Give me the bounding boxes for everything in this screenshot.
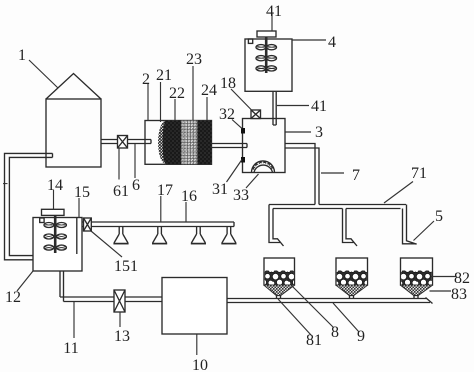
wire pipe drum to box3 — [212, 144, 248, 148]
svg-text:31: 31 — [212, 181, 228, 198]
leader 32 — [232, 120, 242, 129]
leader 83 — [430, 290, 452, 292]
leader 10 — [196, 334, 198, 355]
svg-text:12: 12 — [5, 289, 21, 306]
propeller 12 row 1 — [44, 223, 66, 228]
svg-text:17: 17 — [157, 182, 173, 199]
leader 4 — [292, 39, 326, 41]
vessel 12 — [33, 218, 82, 272]
wire header 71 — [269, 205, 406, 209]
leader 8 — [292, 286, 333, 327]
svg-text:6: 6 — [132, 177, 140, 194]
tank 1 body — [46, 99, 101, 167]
leader 41 top — [271, 14, 273, 31]
valve 13 — [114, 290, 125, 312]
leader 14 — [53, 190, 55, 210]
hopper right box — [401, 258, 433, 299]
leader 13 — [119, 312, 121, 327]
wire drop middle — [343, 209, 358, 247]
svg-text:83: 83 — [451, 286, 467, 303]
leader 7 — [321, 172, 344, 174]
wire pipe valve to drum — [128, 140, 152, 144]
leader 12 — [17, 271, 33, 291]
nozzle 17 c — [191, 227, 205, 244]
svg-text:14: 14 — [47, 177, 63, 194]
fitting 151 — [84, 218, 92, 231]
svg-text:22: 22 — [169, 85, 185, 102]
stirrer motor 41 bar — [257, 31, 276, 37]
leader 24 — [206, 97, 208, 121]
svg-text:41: 41 — [266, 3, 282, 20]
vessel 12 notch — [40, 218, 44, 223]
wire bottom pipe — [227, 298, 433, 304]
svg-text:23: 23 — [186, 51, 202, 68]
leader 6 — [134, 144, 136, 178]
reactor box 3 — [243, 119, 286, 173]
svg-text:82: 82 — [454, 270, 470, 287]
propeller 12 row 3 — [44, 245, 66, 250]
leader 3 — [286, 131, 312, 133]
svg-text:5: 5 — [435, 208, 443, 225]
hopper 9 box — [336, 258, 368, 299]
svg-text:61: 61 — [113, 183, 129, 200]
svg-text:18: 18 — [220, 75, 236, 92]
leader 151 — [91, 231, 122, 257]
svg-text:13: 13 — [114, 328, 130, 345]
leader 11 — [73, 302, 75, 338]
propeller row 2 — [256, 56, 277, 61]
svg-text:11: 11 — [63, 340, 78, 357]
box 10 — [162, 278, 227, 335]
drum housing 2 — [145, 121, 212, 165]
leader 2 — [147, 84, 149, 121]
wire pipe 7 — [285, 144, 319, 205]
svg-text:7: 7 — [352, 167, 360, 184]
svg-text:81: 81 — [306, 332, 322, 349]
svg-text:71: 71 — [411, 165, 427, 182]
tick on loop pipe — [3, 183, 8, 185]
svg-text:10: 10 — [192, 357, 208, 372]
svg-text:8: 8 — [331, 324, 339, 341]
svg-text:9: 9 — [357, 328, 365, 345]
svg-text:32: 32 — [219, 106, 235, 123]
crossed box 18 — [251, 110, 261, 119]
drum section 23 — [182, 121, 198, 165]
stirrer shaft — [265, 37, 268, 73]
hopper 8 box — [264, 258, 295, 299]
wire pipe tank to valve — [101, 140, 118, 144]
leader 33 — [246, 174, 259, 188]
leader 17 — [160, 196, 162, 222]
drum cap 21 — [158, 121, 166, 165]
leader 5 — [414, 221, 435, 241]
port 32 — [241, 128, 245, 134]
leader 81 — [278, 299, 311, 335]
stirrer 12 shaft — [54, 215, 57, 253]
port 31 — [241, 157, 245, 163]
svg-text:15: 15 — [74, 184, 90, 201]
nozzle 17 b — [153, 227, 167, 244]
vessel 4 notch — [248, 39, 252, 43]
leader 16 — [185, 202, 187, 222]
nozzle 17 d — [222, 227, 236, 244]
tank 1 roof — [46, 74, 101, 100]
arch 33 — [252, 161, 275, 173]
leader 31 — [227, 160, 243, 183]
wire manifold 16 — [91, 222, 234, 227]
wire vessel12 to 151 — [82, 222, 83, 227]
nozzle 17 a — [114, 227, 128, 244]
vessel 12 inner liner 15 — [76, 218, 78, 255]
svg-text:41: 41 — [311, 98, 327, 115]
wire drop right — [403, 205, 417, 245]
wire pipe 11 — [60, 271, 162, 302]
propeller row 3 — [256, 66, 277, 71]
svg-text:16: 16 — [181, 188, 197, 205]
propeller 12 row 2 — [44, 234, 66, 239]
leader 9 — [333, 303, 359, 332]
stirrer motor 14 bar — [42, 209, 65, 215]
svg-text:24: 24 — [201, 82, 217, 99]
wire loop pipe tank to vessel12 — [5, 153, 53, 259]
propeller row 1 — [256, 45, 277, 50]
leader 21 — [160, 82, 162, 122]
leader 41 right — [277, 105, 309, 107]
valve 6 — [118, 136, 128, 149]
leader 22 — [174, 99, 176, 121]
wire drop left — [269, 205, 284, 247]
leader 71 — [384, 182, 413, 204]
svg-text:2: 2 — [142, 71, 150, 88]
wire feed pipe 41 vessel4 to box3 — [273, 91, 276, 125]
leader 61 — [118, 148, 120, 180]
svg-text:21: 21 — [156, 67, 172, 84]
leader 82 — [432, 276, 457, 278]
leader 23 — [192, 66, 194, 121]
svg-text:151: 151 — [114, 258, 138, 275]
svg-text:4: 4 — [328, 34, 336, 51]
leader 1 — [29, 60, 58, 88]
leader 15 — [78, 198, 80, 218]
vessel 4 — [245, 39, 292, 91]
svg-text:3: 3 — [315, 124, 323, 141]
svg-text:1: 1 — [18, 47, 26, 64]
leader 18 — [231, 89, 252, 110]
drum section 24 — [198, 121, 212, 165]
svg-text:33: 33 — [233, 187, 249, 204]
drum section 22 — [163, 121, 182, 165]
